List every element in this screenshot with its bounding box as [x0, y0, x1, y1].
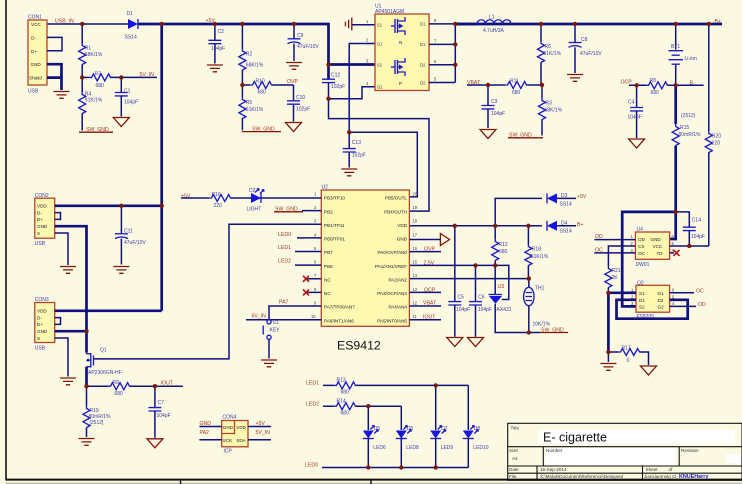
wire LED2 row — [323, 405, 401, 407]
resistor R15 shunt — [672, 85, 701, 212]
svg-text:C10: C10 — [296, 95, 305, 101]
power port SW_GND (R5) — [242, 126, 281, 132]
svg-text:2.5V: 2.5V — [424, 261, 435, 267]
svg-text:51K/1%: 51K/1% — [531, 254, 549, 260]
shunt reg U3 AX431 — [489, 265, 541, 332]
svg-text:R11: R11 — [510, 78, 519, 84]
svg-text:D1: D1 — [127, 11, 134, 17]
net label OD / wire — [594, 234, 635, 240]
svg-text:680: 680 — [499, 249, 508, 255]
resistor R17 — [608, 346, 648, 365]
svg-text:G1: G1 — [658, 291, 665, 296]
net label LED2 — [278, 259, 321, 266]
svg-text:G1: G1 — [377, 41, 383, 46]
border tick x180 — [180, 480, 182, 484]
svg-text:104pF: 104pF — [157, 413, 171, 419]
wire B- node to U4 GND — [670, 212, 676, 239]
wire CON2 S to ground — [55, 233, 68, 265]
svg-text:B-: B- — [690, 80, 695, 86]
svg-text:104pF: 104pF — [456, 307, 470, 313]
svg-text:Q2: Q2 — [637, 280, 644, 286]
svg-text:KEY: KEY — [270, 328, 281, 334]
U2 pin7 NC X — [303, 276, 321, 282]
svg-text:C8: C8 — [581, 37, 588, 43]
svg-text:R10: R10 — [256, 78, 265, 84]
U2 pin16 OVP — [409, 247, 441, 253]
svg-text:102pF: 102pF — [296, 106, 310, 112]
wire CON2 D-/D+ loop — [55, 213, 61, 220]
svg-text:C6: C6 — [478, 294, 485, 300]
svg-text:AP4501AGM: AP4501AGM — [375, 9, 404, 15]
connector CON4 ICP — [222, 415, 248, 455]
svg-text:LIGHT: LIGHT — [247, 206, 262, 212]
capacitor C9 electrolytic — [288, 24, 320, 61]
ground R19 — [79, 439, 95, 446]
IC U2 ES9412 — [321, 185, 409, 353]
svg-text:VDD: VDD — [397, 223, 407, 228]
svg-text:+5V: +5V — [256, 421, 266, 427]
capacitor C5 — [448, 226, 470, 337]
svg-text:OC: OC — [696, 289, 704, 295]
svg-text:4.7uH/3A: 4.7uH/3A — [483, 28, 505, 34]
svg-text:GND: GND — [200, 421, 212, 427]
svg-text:Jianxiaoming Cl: Jianxiaoming Cl — [644, 474, 676, 479]
svg-text:16: 16 — [413, 246, 418, 251]
LED D2 LIGHT — [247, 188, 265, 212]
sheet border bottom — [6, 479, 742, 481]
inductor L1 — [455, 15, 511, 34]
svg-text:File: File — [509, 474, 517, 479]
ground CON3 S — [60, 378, 76, 385]
ground C3 triangle — [480, 130, 496, 139]
svg-text:USB: USB — [35, 346, 46, 352]
capacitor C2 — [208, 24, 225, 64]
svg-text:S2: S2 — [639, 305, 645, 310]
svg-text:A4: A4 — [512, 456, 518, 461]
svg-text:104pF: 104pF — [628, 115, 642, 121]
svg-text:D6: D6 — [407, 426, 414, 432]
svg-text:104pF: 104pF — [124, 100, 138, 106]
svg-text:GND: GND — [31, 62, 42, 67]
svg-text:E- cigarette: E- cigarette — [543, 430, 607, 444]
svg-text:102pF: 102pF — [352, 152, 366, 158]
wire U4 CS to R21 — [608, 246, 635, 266]
net label LED1 — [278, 245, 321, 251]
resistor R4 — [79, 77, 103, 130]
svg-text:R16: R16 — [212, 192, 221, 198]
net label OC / wire — [594, 248, 635, 254]
U2 pin17 GND arrow — [409, 234, 449, 246]
CON4 wires and labels — [199, 421, 271, 440]
svg-text:KNUEHarry: KNUEHarry — [679, 474, 708, 480]
svg-text:PB7: PB7 — [324, 250, 333, 255]
svg-text:R21: R21 — [612, 268, 621, 274]
wire CON3 VDD thick — [55, 309, 162, 312]
wire battery rail — [455, 23, 722, 26]
resistor R3 — [539, 85, 563, 136]
connector CON3 — [35, 297, 55, 351]
U2 pin13 OCP — [409, 287, 441, 293]
thick vertical +5V to CON2/CON3 — [160, 24, 163, 311]
U2 pin numbers — [311, 191, 418, 319]
diode D1 SS14 — [125, 11, 139, 40]
svg-text:S: S — [37, 336, 40, 341]
svg-text:R3: R3 — [546, 101, 553, 107]
svg-text:C7: C7 — [158, 400, 165, 406]
power bar symbol U1 pin1 — [345, 18, 375, 31]
svg-text:D+: D+ — [37, 322, 43, 327]
wire LIGHT row / U2 pin1 — [181, 197, 321, 199]
connector CON1 — [28, 15, 47, 95]
svg-text:104pF: 104pF — [478, 307, 492, 313]
wire top rail USB_IN — [47, 23, 128, 25]
svg-text:10K/1%: 10K/1% — [533, 321, 551, 327]
svg-text:L1: L1 — [489, 15, 495, 21]
battery BT1 — [669, 24, 697, 85]
LED D8 — [463, 385, 489, 467]
MOSFET Q1 AP2306GN-HF — [87, 331, 122, 386]
resistor R10 — [242, 78, 293, 95]
svg-text:S1: S1 — [273, 320, 279, 326]
wire OCP row — [629, 84, 646, 86]
svg-text:12: 12 — [413, 300, 418, 305]
wire Q2 D1-D2 loop — [617, 300, 688, 319]
svg-text:104pF: 104pF — [211, 46, 225, 52]
svg-text:R5: R5 — [246, 100, 253, 106]
svg-text:80mR/1%: 80mR/1% — [679, 132, 702, 138]
svg-text:PB5/OUTL: PB5/OUTL — [385, 196, 408, 201]
U1 inner pin names — [377, 22, 426, 90]
ground CON2 S — [60, 267, 76, 274]
svg-text:B+: B+ — [715, 19, 722, 25]
svg-text:51K/1%: 51K/1% — [544, 51, 562, 57]
svg-text:GND: GND — [397, 237, 408, 242]
ground C6 triangle — [468, 338, 484, 347]
svg-text:VDD: VDD — [37, 309, 47, 314]
wire PA2 line U2 pin14 — [409, 278, 528, 280]
svg-text:D5: D5 — [374, 426, 381, 432]
svg-text:19: 19 — [413, 205, 418, 210]
svg-text:PA4/AN4: PA4/AN4 — [388, 305, 407, 310]
svg-text:68K/1%: 68K/1% — [545, 108, 563, 114]
svg-text:68K/1%: 68K/1% — [246, 62, 264, 68]
capacitor C3 — [482, 85, 506, 128]
svg-text:PA7/TP00/AN7: PA7/TP00/AN7 — [324, 305, 355, 310]
svg-text:D+: D+ — [37, 217, 43, 222]
svg-text:CON1: CON1 — [28, 15, 42, 21]
svg-text:[2512]: [2512] — [90, 420, 105, 426]
svg-text:5V_IN: 5V_IN — [252, 314, 267, 320]
capacitor C14 — [676, 212, 705, 246]
svg-text:PA5/INT0/AN5: PA5/INT0/AN5 — [377, 318, 407, 323]
svg-text:DW01: DW01 — [636, 262, 650, 268]
wire U1 pin3 thick — [329, 63, 376, 66]
svg-text:G2: G2 — [658, 305, 665, 310]
capacitor C11 electrolytic — [115, 206, 146, 265]
svg-text:VCC: VCC — [31, 22, 41, 27]
svg-text:D1: D1 — [639, 298, 645, 303]
wire CON2 GND — [55, 226, 87, 331]
svg-text:47uF/10V: 47uF/10V — [297, 44, 319, 50]
wire U4 VCC to R20 — [670, 245, 709, 247]
svg-text:R18: R18 — [532, 247, 541, 253]
svg-text:68K/1%: 68K/1% — [85, 52, 103, 58]
svg-text:LED0: LED0 — [305, 463, 318, 469]
svg-text:D+: D+ — [31, 49, 37, 54]
net label 5V_IN / wire pin10 — [246, 314, 321, 320]
svg-text:D1: D1 — [420, 42, 426, 47]
svg-text:S1: S1 — [639, 291, 645, 296]
svg-text:47uF/10V: 47uF/10V — [580, 51, 602, 57]
svg-text:OCP: OCP — [424, 287, 436, 293]
power port SW_GND (U3/TH1) — [540, 328, 568, 334]
capacitor C7 — [148, 386, 170, 438]
svg-text:C9: C9 — [297, 33, 304, 39]
svg-text:680: 680 — [258, 90, 267, 96]
svg-text:13: 13 — [413, 287, 418, 292]
wire +5V rail — [139, 24, 329, 65]
svg-text:CON4: CON4 — [223, 415, 237, 421]
svg-text:15: 15 — [413, 260, 418, 265]
wire OUTL to U2 pin20 — [349, 132, 417, 197]
LED D6 — [396, 406, 419, 467]
svg-text:USB_IN: USB_IN — [55, 19, 74, 25]
resistor R13 — [334, 378, 356, 396]
svg-text:18: 18 — [413, 219, 418, 224]
ground C2 — [207, 65, 223, 72]
svg-text:SDA: SDA — [236, 438, 246, 443]
net label PA7 / wire pin9 to KEY — [269, 299, 321, 319]
power port SW_GND (R3) — [508, 132, 543, 138]
ground R17 triangle — [641, 366, 657, 375]
svg-text:PB3/TP10: PB3/TP10 — [324, 196, 345, 201]
svg-text:R17: R17 — [622, 346, 631, 352]
svg-text:R1: R1 — [85, 46, 92, 52]
net label LED0 — [278, 232, 321, 238]
U1 internal N-MOSFET — [391, 17, 405, 45]
U2 pin8 NC X — [303, 289, 321, 295]
svg-text:TH1: TH1 — [535, 285, 545, 291]
ground C8 — [567, 75, 583, 82]
wire OUTH to U2 pin19 — [329, 99, 430, 211]
capacitor C4 — [628, 85, 644, 138]
U2 right pin names — [375, 196, 408, 324]
svg-text:20: 20 — [413, 191, 418, 196]
ground C7 triangle — [147, 439, 163, 448]
svg-text:TD: TD — [657, 251, 664, 256]
title block — [508, 423, 742, 480]
resistor R9 — [87, 380, 183, 397]
svg-text:14: 14 — [413, 273, 418, 278]
svg-text:NC: NC — [324, 291, 331, 296]
wire CON3 S to ground — [55, 338, 68, 377]
svg-text:LED0: LED0 — [278, 232, 291, 238]
svg-text:U4: U4 — [637, 227, 644, 233]
power port SW_GND (U2 pin2) — [274, 206, 321, 212]
svg-text:U3: U3 — [498, 284, 505, 290]
wire node OUTH to U1 pin4 — [329, 87, 376, 99]
svg-text:D1: D1 — [420, 22, 426, 27]
svg-text:5V_IN: 5V_IN — [256, 430, 271, 436]
svg-text:680: 680 — [512, 90, 521, 96]
svg-text:S2: S2 — [377, 62, 383, 67]
svg-text:R15: R15 — [680, 125, 689, 131]
wire CON2 VDD thick — [55, 204, 162, 207]
ground C9 — [286, 63, 302, 70]
svg-text:D2: D2 — [658, 298, 664, 303]
svg-text:CS: CS — [638, 244, 644, 249]
ground S1 node — [600, 364, 616, 371]
svg-text:17: 17 — [413, 232, 418, 237]
svg-text:D-: D- — [37, 210, 42, 215]
svg-text:5V_IN: 5V_IN — [140, 72, 155, 78]
svg-text:102pF: 102pF — [331, 84, 345, 90]
ground C11 — [113, 267, 129, 274]
resistor R1 — [79, 24, 103, 77]
capacitor C13 — [343, 132, 366, 167]
svg-text:BT1: BT1 — [671, 44, 680, 50]
svg-text:G2: G2 — [377, 85, 383, 90]
svg-text:C3: C3 — [491, 99, 498, 105]
MOSFET pack Q2 FS8205 — [631, 280, 675, 319]
svg-text:IOUT: IOUT — [161, 380, 174, 386]
U1 pin numbers — [366, 18, 437, 86]
resistor R6 — [538, 24, 562, 85]
svg-text:LED1: LED1 — [278, 245, 291, 251]
svg-text:VDD: VDD — [236, 425, 246, 430]
resistor R11 — [505, 78, 542, 96]
svg-text:220: 220 — [712, 141, 721, 147]
svg-text:D-: D- — [31, 35, 36, 40]
U1 internal P-MOSFET — [391, 58, 405, 86]
svg-text:LED2: LED2 — [278, 259, 291, 265]
svg-text:Size: Size — [509, 448, 518, 453]
svg-text:LED10: LED10 — [473, 445, 489, 451]
svg-text:PB4/OUTH: PB4/OUTH — [384, 209, 407, 214]
ground CON1 — [54, 92, 70, 99]
svg-text:PA3/OCP/AN3: PA3/OCP/AN3 — [377, 291, 407, 296]
svg-text:ICP: ICP — [224, 448, 233, 454]
title highlight — [538, 430, 735, 444]
svg-text:Revision: Revision — [681, 448, 699, 453]
svg-text:PA2/AN2: PA2/AN2 — [388, 278, 407, 283]
svg-text:47uF/10V: 47uF/10V — [124, 240, 146, 246]
svg-text:R13: R13 — [337, 378, 346, 384]
svg-text:IOUT: IOUT — [423, 314, 436, 320]
wire S1 node down — [607, 293, 610, 352]
ground C4 triangle — [629, 139, 645, 148]
svg-text:NC: NC — [324, 278, 331, 283]
svg-text:PA0/OVP/AN0: PA0/OVP/AN0 — [377, 250, 407, 255]
ground C5 triangle — [447, 338, 463, 347]
sheet border left — [5, 0, 7, 481]
svg-text:C1: C1 — [124, 88, 131, 94]
svg-text:2K: 2K — [612, 275, 619, 281]
svg-text:LED1: LED1 — [306, 381, 319, 387]
wire LED1 row — [323, 384, 468, 386]
wire U2 pin3 to Q1 gate — [94, 224, 321, 359]
wire B- node to Q2 — [622, 212, 676, 307]
resistor R14 — [334, 398, 356, 416]
svg-text:CON3: CON3 — [35, 297, 49, 303]
svg-text:680: 680 — [651, 90, 660, 96]
wire VDD line U2 pin18 — [409, 225, 528, 227]
svg-text:C4: C4 — [628, 99, 635, 105]
svg-text:91K/1%: 91K/1% — [85, 98, 103, 104]
resistor R7 — [82, 71, 157, 88]
svg-text:D7: D7 — [441, 426, 448, 432]
svg-text:AP2306GN-HF: AP2306GN-HF — [88, 370, 122, 376]
U2 left pin names — [324, 196, 355, 324]
ground S1 — [261, 360, 277, 367]
svg-text:220: 220 — [214, 203, 223, 209]
svg-text:GND: GND — [223, 425, 234, 430]
svg-text:GND: GND — [37, 224, 48, 229]
ground C1 triangle — [113, 118, 129, 127]
resistor R2 — [239, 24, 264, 85]
push button S1 KEY — [263, 320, 280, 359]
wire 2.5V line U2 pin15 — [409, 265, 508, 299]
svg-text:C11: C11 — [124, 229, 133, 235]
LED D7 — [430, 385, 453, 467]
svg-text:GND: GND — [37, 329, 48, 334]
svg-text:OD: OD — [638, 237, 646, 242]
svg-text:R9: R9 — [113, 380, 120, 386]
svg-text:D2: D2 — [249, 188, 256, 194]
svg-text:LED6: LED6 — [373, 445, 386, 451]
svg-text:C5: C5 — [458, 294, 465, 300]
capacitor C8 electrolytic — [569, 24, 603, 73]
svg-text:+5V: +5V — [577, 194, 587, 200]
thermistor TH1 — [524, 279, 551, 333]
wire Q2 G1 / net OC — [670, 289, 704, 295]
svg-text:PB1/TP11: PB1/TP11 — [324, 223, 345, 228]
svg-text:SS14: SS14 — [125, 34, 137, 40]
title texts — [509, 425, 699, 479]
ground C13 — [341, 169, 357, 176]
svg-text:D-: D- — [37, 315, 42, 320]
svg-text:680: 680 — [341, 410, 350, 416]
svg-text:PA7: PA7 — [279, 299, 289, 305]
svg-text:(2512): (2512) — [681, 113, 696, 119]
wire CON1 GND/Shield — [47, 64, 62, 90]
svg-text:S: S — [37, 231, 40, 236]
diode D3 SS14 — [495, 193, 587, 226]
svg-text:680: 680 — [115, 391, 124, 397]
U2 pin11 IOUT — [409, 314, 441, 320]
wire U1 pin2 to node — [349, 44, 375, 133]
svg-text:104pF: 104pF — [491, 111, 505, 117]
wire CON3 GND — [55, 330, 87, 333]
svg-text:R20: R20 — [712, 134, 721, 140]
svg-text:Title: Title — [511, 425, 520, 430]
U1 right pins common wires — [429, 24, 455, 83]
svg-text:D8: D8 — [474, 426, 481, 432]
svg-text:P: P — [399, 81, 402, 86]
diode D4 SS14 — [528, 221, 583, 235]
svg-text:USB: USB — [28, 89, 39, 95]
svg-text:VCC: VCC — [653, 244, 663, 249]
capacitor C12 — [322, 65, 345, 99]
svg-text:N: N — [399, 40, 402, 45]
svg-text:680: 680 — [96, 83, 105, 89]
IC U1 AP4501AGM — [375, 4, 429, 91]
svg-text:LED8: LED8 — [406, 445, 419, 451]
connector CON2 — [35, 193, 55, 247]
svg-text:OVP: OVP — [287, 79, 298, 85]
svg-text:U2: U2 — [322, 185, 329, 191]
svg-text:PA6/INT1/AN6: PA6/INT1/AN6 — [324, 318, 354, 323]
